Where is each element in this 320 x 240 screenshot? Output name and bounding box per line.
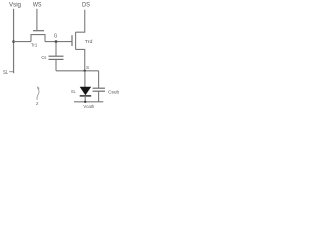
svg-text:SL: SL bbox=[3, 70, 8, 76]
node G dot bbox=[55, 40, 58, 43]
capacitor Csub top plate bbox=[93, 87, 105, 89]
junction on Vsig line bbox=[12, 40, 15, 43]
svg-text:S: S bbox=[86, 65, 89, 70]
transistor Trd gate bar bbox=[71, 35, 73, 46]
svg-text:Vsig: Vsig bbox=[9, 2, 22, 9]
wire: Vsig signal line vertical bbox=[13, 9, 15, 73]
svg-text:z: z bbox=[36, 102, 39, 107]
leader arrowhead bbox=[37, 86, 40, 90]
wire: node S horizontal rail bbox=[56, 70, 99, 72]
leader arrow squiggle bbox=[37, 88, 39, 100]
svg-text:Csub: Csub bbox=[108, 90, 119, 96]
diode EL cathode bar bbox=[80, 95, 92, 97]
capacitor Cs bottom plate bbox=[49, 58, 64, 60]
svg-text:Tr1: Tr1 bbox=[31, 43, 37, 49]
node S junction dot bbox=[84, 70, 86, 72]
wire: Vcath rail bbox=[74, 101, 103, 103]
svg-text:Cs: Cs bbox=[41, 55, 46, 61]
wire: WS gate line vertical bbox=[36, 9, 38, 31]
svg-text:G: G bbox=[54, 33, 57, 39]
wire: rail to Csub top bbox=[98, 71, 100, 88]
wire: Tr1 drain to node G to Trd gate bbox=[45, 41, 72, 43]
svg-text:WS: WS bbox=[33, 2, 42, 9]
wire: node S down to EL anode bbox=[84, 71, 86, 87]
transistor Trd channel bar bbox=[75, 32, 77, 50]
wire: Trd source jog bbox=[76, 49, 85, 70]
wire: EL cathode down bbox=[84, 96, 86, 102]
wire: Trd drain jog bbox=[76, 10, 85, 32]
wire: row from Vsig to Tr1 source bbox=[14, 41, 31, 43]
junction dot on Vcath rail bbox=[84, 101, 86, 103]
capacitor Csub bottom plate bbox=[93, 90, 105, 92]
wire: Cs bottom down bbox=[55, 59, 57, 70]
capacitor Cs top plate bbox=[49, 55, 64, 57]
svg-text:Vcath: Vcath bbox=[83, 104, 94, 110]
transistor Tr1 channel bump bbox=[31, 35, 45, 42]
transistor Tr1 gate bar bbox=[33, 30, 44, 32]
svg-text:EL: EL bbox=[71, 89, 76, 94]
wire: node G down to Cs bbox=[55, 42, 57, 57]
wire: Csub bottom down bbox=[98, 91, 100, 102]
diode EL anode triangle bbox=[80, 87, 92, 95]
svg-text:DS: DS bbox=[82, 2, 90, 9]
node SL leader dash bbox=[9, 71, 13, 73]
svg-text:Trd: Trd bbox=[85, 39, 93, 45]
